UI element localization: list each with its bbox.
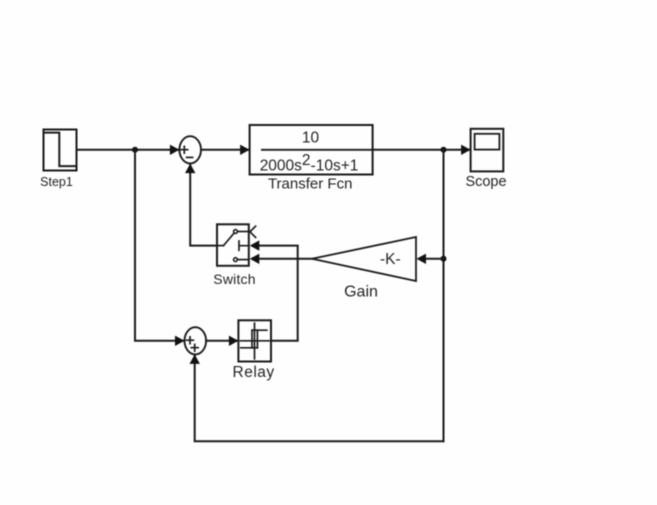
S1 plus sign (left input) <box>181 146 188 153</box>
svg-text:2000s2-10s+1: 2000s2-10s+1 <box>260 152 359 175</box>
svg-text:-K-: -K- <box>380 251 401 268</box>
Step1 step waveform icon <box>44 133 77 167</box>
svg-text:Step1: Step1 <box>40 175 73 189</box>
S2 plus sign (bottom input) <box>191 344 198 351</box>
Transfer Fcn fraction bar <box>262 149 373 151</box>
arrowhead into Switch middle input port <box>250 240 259 250</box>
Switch bottom input stub line <box>238 259 249 261</box>
wire W9: Switch output up to summer S1 bottom <box>190 165 217 246</box>
arrowhead into summer S2 bottom <box>190 354 200 364</box>
wire W5: feedback from J2 down right side <box>443 150 445 442</box>
svg-text:Scope: Scope <box>465 174 506 190</box>
Switch top input stub circle <box>234 230 238 234</box>
Relay hysteresis top line <box>252 329 267 331</box>
Relay vertical axis <box>254 323 256 359</box>
arrowhead into Scope <box>461 145 471 155</box>
wire W1: Step1 output to summer S1 <box>77 149 179 151</box>
Relay hysteresis bottom line <box>241 347 258 349</box>
transfer function block Transfer Fcn <box>250 125 373 175</box>
arrowhead into summer S2 left <box>175 336 185 346</box>
summing junction S1 <box>179 136 201 163</box>
svg-text:Switch: Switch <box>213 271 255 287</box>
step source Step1 (block box) <box>44 130 77 171</box>
summing junction S2 <box>185 327 207 354</box>
Scope screen <box>475 134 500 150</box>
Switch bottom input stub circle <box>234 258 238 262</box>
wire W6: bottom feedback to summer S2 bottom <box>195 356 444 441</box>
Switch lever arm <box>224 233 235 246</box>
arrowhead into Transfer Fcn <box>240 145 250 155</box>
gain block Gain (triangle) <box>312 237 416 281</box>
svg-text:Transfer Fcn: Transfer Fcn <box>268 176 352 193</box>
svg-text:10: 10 <box>302 129 320 146</box>
wire W5a: J3 left into Gain input <box>426 258 444 260</box>
Switch threshold marker (middle input T) <box>239 241 249 250</box>
wire W7: Gain output to Switch bottom input <box>259 258 312 260</box>
wire W2: branch from J1 down and right to summer S2 <box>135 150 183 341</box>
S1 minus sign (bottom input) <box>187 156 193 158</box>
scope block Scope (outer box) <box>471 129 504 172</box>
Relay hysteresis left riser <box>251 330 253 348</box>
Relay hysteresis right riser <box>256 330 258 348</box>
S2 plus sign (left input) <box>187 337 194 344</box>
arrowhead into Gain right edge <box>417 254 427 264</box>
wire W8: Relay output up to Switch control input <box>259 246 298 341</box>
svg-text:Gain: Gain <box>344 283 378 300</box>
arrowhead into summer S1 bottom <box>185 164 195 174</box>
wire W4: Transfer Fcn output to Scope <box>373 149 469 151</box>
Switch top input stub line <box>238 231 249 233</box>
switch block Switch (box) <box>217 224 249 265</box>
arrowhead into Relay <box>229 336 239 346</box>
svg-text:Relay: Relay <box>233 364 275 381</box>
arrowhead into summer S1 left <box>170 145 180 155</box>
node J1 branch junction <box>132 147 138 153</box>
Switch unconnected top port marker <box>250 226 256 237</box>
Relay horizontal axis <box>241 340 270 342</box>
node J2 feedback junction <box>441 147 447 153</box>
node J3 gain tap junction <box>441 256 447 262</box>
relay block Relay (box) <box>238 320 271 361</box>
arrowhead into Switch bottom input port <box>250 254 259 264</box>
Switch output stub <box>217 245 224 247</box>
wire W3: summer S1 to Transfer Fcn <box>201 149 248 151</box>
wire W10: summer S2 to Relay <box>206 340 237 342</box>
